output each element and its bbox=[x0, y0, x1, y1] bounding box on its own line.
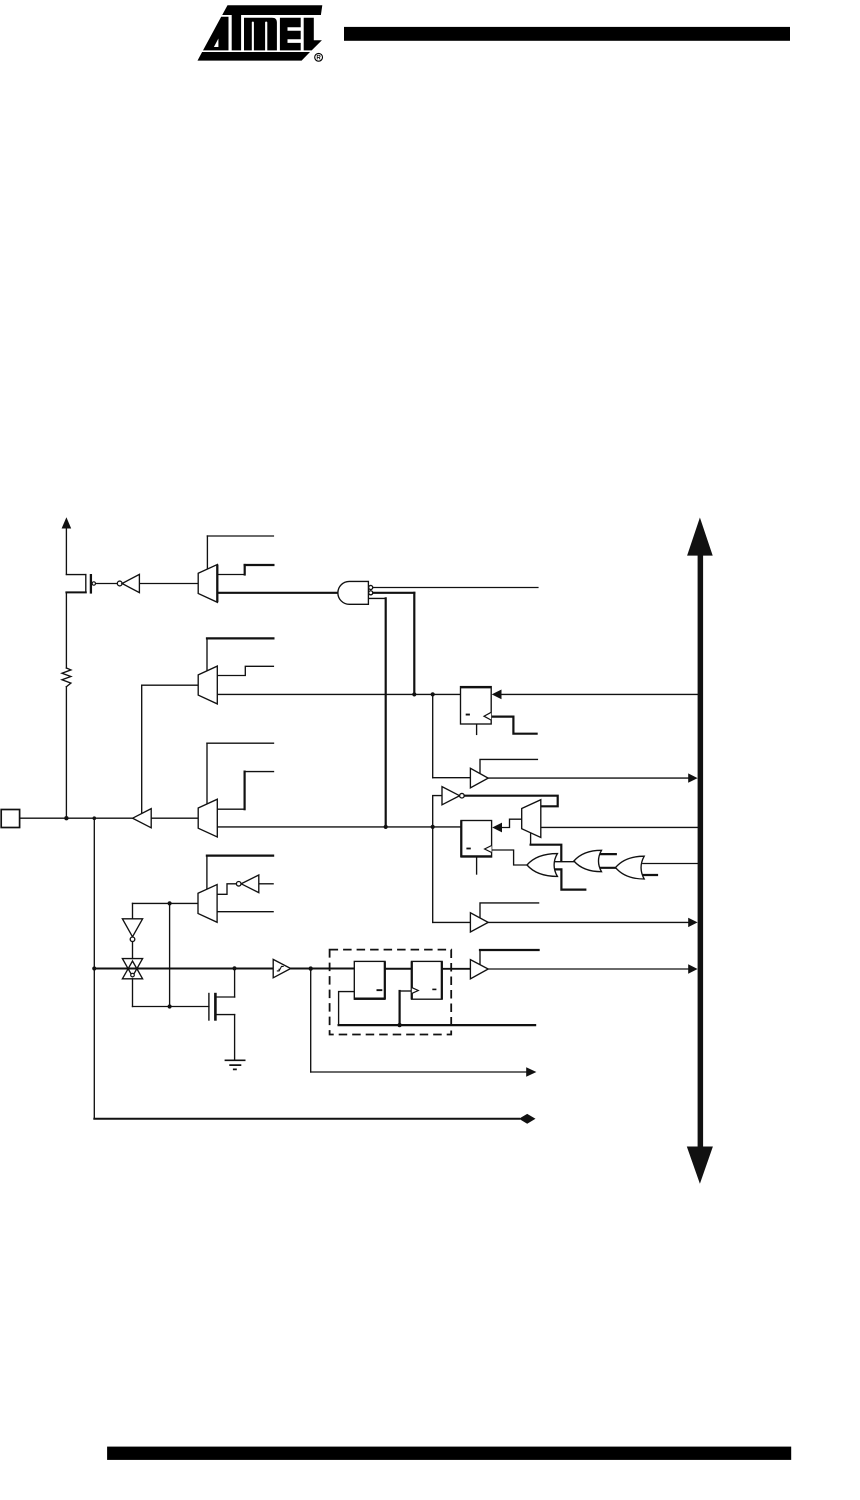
flipflop DDxn Q dash bbox=[466, 714, 470, 716]
or gate G3 bbox=[574, 850, 602, 871]
wire buffer2 output to bus bbox=[488, 921, 689, 923]
wire pin line bbox=[20, 817, 133, 819]
wire latch2 to buffer5 bbox=[442, 968, 470, 970]
transistor Q1 pmos gate plate bbox=[90, 574, 92, 594]
buffer B3 pin driver bbox=[133, 809, 152, 828]
wire buffer5 enable vertical bbox=[479, 950, 481, 965]
wire pin row to schmitt bbox=[94, 968, 273, 970]
inverter U5 bubble bbox=[130, 937, 135, 942]
wire mux3 select vertical bbox=[206, 743, 208, 804]
bowtie bubble bbox=[131, 973, 135, 977]
wire mux5 branch vertical bbox=[169, 903, 171, 1006]
wire mux1 step top bbox=[245, 564, 274, 566]
inverter U5 down bbox=[122, 919, 142, 937]
arrowhead buffer B1 to bus bbox=[688, 773, 697, 782]
wire inverter2 input bbox=[433, 796, 442, 827]
or gate G4 bbox=[616, 856, 645, 879]
wire mux5 top input bbox=[207, 854, 273, 856]
wire inverter2 output step bbox=[464, 796, 557, 807]
wire DFF1 D from bus bbox=[501, 693, 697, 695]
wire buffer5 output to bus bbox=[488, 968, 689, 970]
wire pmos source stub bbox=[66, 574, 85, 576]
buffer B1 bbox=[470, 768, 488, 788]
wire mux1 step vertical bbox=[244, 565, 246, 575]
wire latch1 to latch2 bbox=[385, 968, 412, 970]
wire mux2 select vertical bbox=[206, 638, 208, 670]
flipflop PORTxn clock chevron bbox=[485, 846, 492, 853]
wire pmos drain to resistor bbox=[65, 592, 67, 668]
inverter U1 bbox=[122, 574, 139, 592]
wire inverter4 input bbox=[259, 883, 273, 885]
node ddq2 bbox=[431, 692, 435, 696]
wire AND input3 bbox=[368, 597, 385, 599]
wire schmitt tap vertical bbox=[310, 969, 312, 1072]
data bus shaft bbox=[698, 555, 704, 1146]
flipflop PORTxn Q dash bbox=[466, 848, 470, 850]
header rule bar bbox=[344, 27, 790, 41]
latch L1 right edge bbox=[384, 961, 386, 999]
wire DIxn arrow line bbox=[311, 1071, 527, 1073]
wire AND input3 vertical bbox=[385, 598, 387, 827]
wire mux1 top input bbox=[207, 535, 273, 537]
flipflop PORTxn bottom edge bbox=[461, 855, 492, 857]
wire AND output to mux1 bbox=[217, 592, 338, 594]
resistor RPU bbox=[62, 668, 71, 687]
arrowhead DIxn bbox=[526, 1067, 536, 1077]
mux M1 bbox=[198, 565, 217, 603]
wire buffer2 input bbox=[433, 921, 471, 923]
wire to nmos gate bbox=[133, 1006, 209, 1008]
arrowhead buffer B5 to bus bbox=[688, 964, 697, 973]
node pullup-pin bbox=[64, 816, 68, 820]
node pin row left bbox=[92, 966, 96, 970]
node schmitt out bbox=[309, 966, 313, 970]
wire DFF2 D step bbox=[502, 819, 521, 827]
wire mux5 input2 bbox=[217, 911, 273, 913]
wire buffer1 input vertical bbox=[432, 694, 434, 777]
wire PORTxn Q row bbox=[217, 826, 461, 828]
wire mux3 top input bbox=[207, 742, 274, 744]
wire gateB input stub2 bbox=[601, 867, 616, 869]
wire buffer1 input bbox=[433, 777, 471, 779]
wire buffer5 enable bbox=[480, 949, 539, 951]
mux M4 bbox=[522, 800, 541, 838]
diamond AIOxn bbox=[519, 1114, 536, 1124]
inverter U2 bubble bbox=[460, 793, 465, 798]
wire latch2 clock bbox=[400, 990, 412, 992]
wire mux1 step input bbox=[217, 574, 244, 576]
buffer B5 bbox=[470, 960, 488, 979]
node sync clock bbox=[397, 1023, 401, 1027]
wire AND input2 bbox=[373, 592, 415, 594]
wire resistor to pin node bbox=[65, 687, 67, 819]
inverter U4 bbox=[241, 875, 259, 893]
latch L1 Q dash bbox=[377, 989, 383, 991]
wire DFF2 reset stub bbox=[476, 857, 478, 874]
wire DFF1 clock step bbox=[491, 717, 536, 734]
wire pmos drain stub bbox=[66, 591, 85, 593]
wire bowtie down bbox=[132, 979, 134, 1007]
bowtie clamp lower triangle bbox=[122, 961, 142, 979]
wire pmos channel side bbox=[85, 575, 87, 593]
synchronizer dashed box bbox=[330, 950, 452, 1035]
wire x432 vertical lower bbox=[432, 827, 434, 923]
latch L2 left edge bbox=[411, 961, 413, 999]
vcc arrow bbox=[62, 517, 72, 528]
transistor Q2 nmos channel bbox=[214, 993, 217, 1021]
transistor Q2 nmos gate plate bbox=[208, 993, 210, 1021]
wire AND input2 vertical bbox=[413, 593, 415, 695]
wire DDxn Q row bbox=[217, 693, 460, 695]
schmitt trigger buffer bbox=[273, 959, 291, 977]
wire schmitt to latch1 bbox=[291, 968, 355, 970]
wire DFF2 clock step bbox=[492, 850, 528, 865]
or gate G2 bbox=[527, 854, 557, 877]
latch L1 bottom edge bbox=[354, 997, 385, 999]
wire buffer1 enable bbox=[480, 759, 537, 774]
node nmos drain bbox=[232, 966, 236, 970]
flipflop DDxn box bbox=[461, 687, 492, 724]
wire nmos source stub bbox=[217, 1014, 235, 1016]
mux M1 right edge bbox=[216, 565, 218, 603]
wire gateA input2 step bbox=[555, 869, 585, 889]
node portq1 bbox=[384, 825, 388, 829]
wire buffer2 enable bbox=[480, 903, 539, 918]
wire mux2 output bbox=[142, 684, 199, 686]
wire gateB input stub1 bbox=[600, 853, 615, 855]
wire gateC input stub bbox=[642, 874, 658, 876]
mux M2 bbox=[198, 666, 217, 704]
and gate G1 bubble1 bbox=[369, 585, 373, 589]
flipflop DDxn clock chevron bbox=[484, 712, 491, 720]
wire mux3 step input bbox=[217, 808, 244, 810]
inverter U4 bubble bbox=[236, 882, 241, 887]
inverter U2 bbox=[442, 787, 460, 805]
footer rule bar bbox=[107, 1447, 791, 1460]
arrowhead buffer B2 to bus bbox=[688, 918, 697, 927]
wire pin vertical bbox=[93, 818, 95, 1118]
wire sync clock bottom bbox=[339, 1024, 535, 1026]
inverter U1 bubble bbox=[117, 581, 122, 586]
node pin-tap bbox=[93, 816, 97, 820]
wire mux4 bottom vertical bbox=[530, 834, 532, 845]
wire latch2 clock vertical bbox=[399, 991, 401, 1025]
pin pad square bbox=[1, 810, 19, 828]
wire latch1 clock L bbox=[339, 992, 355, 1025]
wire inverter5 to bowtie bbox=[132, 942, 134, 959]
wire mux2 step input bbox=[217, 666, 273, 675]
latch L2 Q dash bbox=[432, 989, 436, 991]
wire DFF1 reset stub bbox=[476, 724, 478, 734]
buffer B2 bbox=[470, 913, 488, 932]
latch L2 right edge bbox=[441, 961, 443, 999]
wire mux4 bottom step bbox=[531, 845, 562, 861]
wire gateC input from bus bbox=[643, 863, 698, 865]
mux M3 bbox=[198, 799, 217, 837]
wire mux3 step top bbox=[245, 771, 274, 773]
data bus bottom arrowhead bbox=[687, 1147, 713, 1184]
wire mux5 output down bbox=[132, 903, 134, 918]
bowtie clamp upper triangle bbox=[122, 959, 142, 977]
flipflop PORTxn box bbox=[461, 821, 492, 858]
latch L2 clock chevron bbox=[412, 988, 419, 994]
node ddq1 bbox=[412, 692, 416, 696]
wire nmos source to ground bbox=[234, 1015, 236, 1061]
flipflop DDxn top edge bbox=[461, 686, 492, 688]
node portq2 bbox=[431, 825, 435, 829]
and gate G1 bubble2 bbox=[369, 591, 373, 595]
wire gateB output bbox=[553, 861, 574, 863]
wire analog io line bbox=[94, 1118, 519, 1120]
wire DFF2 to bus bbox=[541, 826, 698, 828]
latch L2 box bbox=[412, 961, 443, 999]
wire mux2 top input bbox=[207, 637, 273, 639]
wire VCC supply bbox=[65, 528, 67, 574]
wire inverter4 output step bbox=[217, 884, 236, 895]
mux M5 bbox=[198, 885, 217, 923]
data bus top arrowhead bbox=[687, 518, 713, 556]
wire pmos gate to inverter bbox=[95, 583, 117, 585]
schmitt hysteresis glyph bbox=[277, 966, 284, 971]
Atmel logo bbox=[198, 5, 323, 61]
flipflop PORTxn D arrowhead bbox=[492, 823, 502, 833]
node mux5 out bbox=[168, 901, 172, 905]
flipflop PORTxn left edge bbox=[460, 821, 462, 858]
wire buffer1 output to bus bbox=[488, 777, 689, 779]
wire mux5 output bbox=[133, 902, 199, 904]
latch L1 box bbox=[354, 961, 385, 999]
wire nmos drain up bbox=[234, 968, 236, 997]
wire AND input1 bbox=[373, 587, 538, 589]
wire mux5 select vertical bbox=[206, 856, 208, 890]
wire inverter1 to mux1 bbox=[139, 583, 198, 585]
and gate G1 bbox=[338, 581, 369, 604]
junction dots bbox=[64, 692, 435, 1027]
wire mux3 step vertical bbox=[244, 772, 246, 810]
node nmos gate row bbox=[168, 1004, 172, 1008]
ground bbox=[225, 1060, 246, 1069]
wire mux1 select vertical bbox=[206, 536, 208, 569]
wire nmos drain stub bbox=[217, 996, 235, 998]
transistor Q1 gate bubble bbox=[92, 582, 95, 585]
wire mux2 output to pin driver enable bbox=[141, 685, 143, 813]
wire mux3 output to pin driver bbox=[151, 817, 198, 819]
flipflop DDxn D arrowhead bbox=[492, 690, 502, 700]
